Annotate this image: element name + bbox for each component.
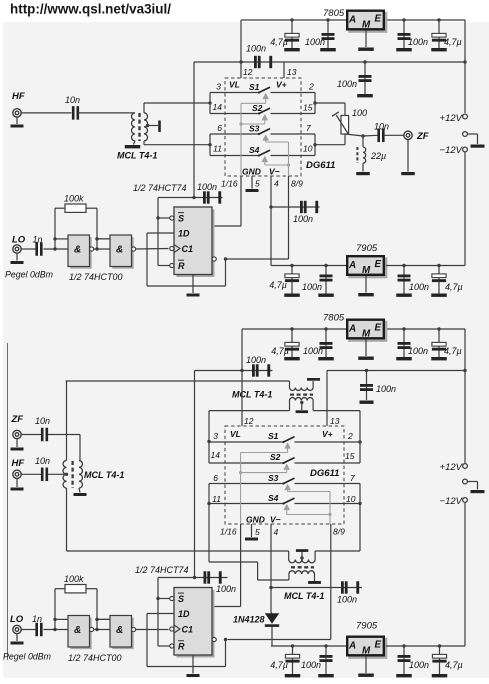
svg-text:10n: 10n	[35, 456, 50, 466]
label +12V b	[440, 462, 464, 473]
switch box S1/S2 frame	[208, 93, 316, 114]
label T3 MCL T4-1	[284, 591, 324, 601]
wire V- rail	[271, 265, 346, 267]
control net S3b	[284, 484, 330, 492]
svg-text:2: 2	[347, 431, 353, 441]
svg-text:10n: 10n	[65, 95, 80, 105]
wire T3 to box2b output	[315, 504, 360, 552]
control net S2	[241, 114, 268, 124]
wire V+ rail y62	[239, 60, 466, 63]
label pin 8/9b	[333, 527, 345, 537]
pin 1/16b stub to FF2 Q	[212, 524, 241, 607]
regulator U2 7805	[323, 8, 387, 33]
capacitor C29 4,7u (7905b E side)	[432, 644, 448, 677]
svg-text:13: 13	[330, 416, 340, 426]
flip-flop U4 74HCT74	[170, 207, 217, 277]
svg-text:14: 14	[211, 450, 221, 460]
regulator U6 7805	[323, 313, 387, 342]
svg-text:100n: 100n	[337, 79, 357, 89]
label C17 100n	[303, 346, 323, 356]
wire C9 to ZF	[385, 134, 404, 136]
svg-text:DG611: DG611	[306, 160, 335, 171]
label C22 100n	[337, 595, 357, 605]
capacitor C10 1n	[35, 242, 42, 256]
control net S2b	[241, 464, 290, 473]
svg-text:E: E	[375, 13, 382, 24]
capacitor C23 10n	[41, 428, 48, 442]
capacitor C6 100n (V+ decoupling)	[357, 60, 373, 97]
svg-text:100n: 100n	[302, 282, 322, 292]
svg-text:4,7µ: 4,7µ	[445, 660, 463, 670]
node mixer output	[361, 134, 364, 137]
label pin 11	[213, 144, 222, 154]
transformer T2 secondary	[290, 398, 314, 411]
svg-text:1/2 74HCT74: 1/2 74HCT74	[135, 565, 189, 575]
wire +5V rail top	[241, 19, 346, 21]
wire C23 to T4	[48, 435, 80, 461]
wire +5V rail bottom	[242, 328, 346, 330]
wire T3 center tap bar	[296, 549, 308, 560]
ground 7805b M pin	[358, 340, 374, 360]
svg-text:R: R	[178, 642, 185, 652]
wire R pin b	[158, 645, 170, 647]
ground HF connector	[11, 117, 24, 128]
capacitor C16 4,7u (7805b A side)	[284, 327, 300, 360]
capacitor C30 10n	[41, 468, 48, 482]
ground FF U9	[187, 655, 200, 677]
label pin 14	[213, 102, 223, 112]
label pin 10	[303, 144, 313, 154]
svg-text:1N4128: 1N4128	[233, 615, 265, 625]
svg-text:+12V: +12V	[440, 113, 464, 124]
wire T3 secondary left to box2b input	[209, 504, 289, 581]
label C21 100n	[376, 384, 396, 394]
resistor R1 100k	[55, 204, 97, 249]
NAND gate U3a	[53, 235, 93, 269]
NAND gate U8b	[95, 616, 135, 650]
capacitor C28 100n (7905b E side)	[396, 644, 412, 677]
label S2	[252, 103, 263, 113]
svg-text:10: 10	[303, 144, 313, 154]
capacitor C21 100n (V+b decoupling)	[360, 369, 374, 404]
label C23 10n	[35, 416, 50, 426]
svg-text:1D: 1D	[178, 229, 190, 239]
svg-text:A: A	[348, 640, 356, 651]
label C2 100n	[305, 37, 325, 47]
control net vertical S3S4	[287, 142, 290, 176]
svg-text:1/2 74HCT00: 1/2 74HCT00	[68, 653, 122, 663]
label pin 14b	[211, 450, 221, 460]
svg-text:100n: 100n	[246, 44, 266, 54]
svg-text:MCL T4-1: MCL T4-1	[284, 591, 324, 601]
wire R pin	[158, 265, 170, 267]
svg-text:M: M	[362, 645, 371, 656]
svg-text:6: 6	[217, 123, 222, 133]
label C18 100n	[408, 346, 428, 356]
label pin 15b	[345, 451, 355, 461]
svg-text:GND: GND	[246, 515, 265, 525]
svg-text:4,7µ: 4,7µ	[270, 660, 288, 670]
label C25 100n	[216, 584, 236, 594]
label C19 4,7u	[444, 346, 462, 356]
transformer T4 core	[71, 461, 73, 488]
switch box S1/S2b frame	[207, 440, 361, 463]
label Pegel 0dBm	[5, 270, 53, 280]
label C29 4,7u	[445, 660, 463, 670]
capacitor C8 100n (V- dangling)	[271, 201, 320, 213]
svg-text:11: 11	[212, 494, 221, 504]
svg-text:S4: S4	[249, 145, 260, 155]
svg-text:&: &	[74, 625, 81, 636]
label U3 1/2 74HCT00	[69, 272, 123, 282]
svg-text:100k: 100k	[64, 194, 84, 204]
label T1 MCL T4-1	[117, 151, 157, 161]
terminal +12V b	[463, 371, 468, 469]
svg-text:100k: 100k	[64, 574, 84, 584]
svg-text:4: 4	[274, 527, 279, 537]
wire S/R tie b	[156, 578, 194, 647]
label C6 100n	[337, 79, 357, 89]
wire C30 to T4 tap	[48, 473, 68, 476]
label C9 10n	[374, 122, 389, 132]
svg-text:S: S	[178, 594, 184, 604]
switch S4 blade	[258, 150, 270, 156]
svg-text:E: E	[375, 259, 382, 270]
label V-	[269, 167, 280, 177]
label C13 100n	[302, 282, 322, 292]
svg-text:7805: 7805	[323, 8, 345, 19]
svg-text:100n: 100n	[408, 346, 428, 356]
svg-text:http://www.qsl.net/va3iul/: http://www.qsl.net/va3iul/	[10, 1, 171, 16]
wire C7 to T1	[79, 112, 135, 114]
label V+	[276, 80, 287, 90]
label VL	[229, 80, 240, 90]
transformer T1 secondary	[144, 113, 148, 141]
label S4	[249, 145, 260, 155]
ground pin5	[246, 189, 259, 192]
wire V-b rail	[271, 645, 346, 647]
capacitor C9 10n	[377, 129, 384, 143]
transformer T1 primary	[132, 113, 136, 141]
label U4 1/2 74HCT74	[133, 183, 187, 193]
node +5Vb corner	[241, 329, 243, 371]
pin 8/9b stub to FF2 Qbar	[228, 524, 331, 640]
label C1 4,7u	[270, 37, 288, 47]
wire gate2b upper input	[95, 618, 110, 621]
svg-text:M: M	[362, 265, 371, 276]
svg-text:Pegel 0dBm: Pegel 0dBm	[3, 652, 51, 662]
transformer T2 primary	[290, 381, 314, 390]
label C16 4,7u	[271, 346, 289, 356]
wire V+b rail	[327, 369, 467, 372]
svg-text:100n: 100n	[408, 37, 428, 47]
svg-text:S3: S3	[268, 473, 279, 483]
svg-text:4,7µ: 4,7µ	[269, 280, 287, 290]
switch box S3/S4b frame	[207, 484, 361, 506]
svg-text:1/2 74HCT00: 1/2 74HCT00	[69, 272, 123, 282]
capacitor C18 100n (7805b E side)	[396, 327, 412, 360]
wire 1D feedback	[147, 233, 226, 286]
wire gate2 upper input	[95, 237, 110, 240]
svg-text:−12V: −12V	[440, 496, 464, 507]
svg-text:5: 5	[255, 179, 260, 189]
label S1b	[268, 431, 279, 441]
wire pot bottom to node	[345, 134, 363, 136]
capacitor C27 100n (7905b A side)	[318, 644, 334, 677]
svg-text:13: 13	[287, 67, 297, 77]
svg-text:7: 7	[306, 123, 311, 133]
terminal +12V	[463, 62, 468, 119]
wire T2 secondary right to pin2b	[313, 411, 360, 442]
capacitor C15 4,7u (7905 E side)	[431, 264, 447, 297]
wire box2 out to pot bottom	[315, 134, 345, 145]
label pin 1/16b	[220, 527, 237, 537]
svg-text:S1: S1	[249, 82, 260, 92]
svg-text:MCL T4-1: MCL T4-1	[232, 390, 272, 400]
label U9 1/2 74HCT74	[135, 565, 189, 575]
svg-text:14: 14	[213, 102, 223, 112]
flip-flop U9 74HCT74	[170, 588, 217, 658]
terminal GND b	[463, 479, 485, 493]
label R1 100k	[64, 194, 84, 204]
label P1 100	[352, 108, 367, 118]
label C30 10n	[35, 456, 50, 466]
label C24 1n	[32, 614, 42, 624]
switch S3b blade	[282, 478, 294, 485]
wire VL rail to FF supply	[194, 62, 241, 198]
control net vertical S3S4b	[328, 492, 331, 525]
svg-text:S: S	[178, 214, 184, 224]
svg-text:S2: S2	[252, 103, 263, 113]
label pin 4	[274, 179, 279, 189]
label pin 3	[216, 82, 221, 92]
svg-text:C1: C1	[182, 244, 194, 254]
svg-text:7905: 7905	[356, 621, 378, 632]
wire LO to C10	[21, 248, 35, 250]
svg-text:100n: 100n	[376, 384, 396, 394]
label pin 1/16	[221, 179, 238, 189]
svg-text:&: &	[116, 244, 123, 255]
svg-text:100n: 100n	[293, 214, 313, 224]
label pin 2	[308, 82, 314, 92]
label U7 DG611	[310, 468, 339, 479]
regulator U5 7905	[347, 243, 387, 278]
label pin 4b	[274, 527, 279, 537]
pin 13 V+ stub	[283, 62, 285, 78]
svg-text:A: A	[348, 14, 356, 25]
svg-text:100n: 100n	[246, 355, 266, 365]
svg-text:8/9: 8/9	[333, 527, 345, 537]
wire S pin	[158, 217, 170, 219]
svg-text:10n: 10n	[35, 416, 50, 426]
label Pegel 0dBm b	[3, 652, 51, 662]
label C12 4,7u	[269, 280, 287, 290]
pin 13b stub	[326, 371, 328, 427]
wire T2 center tap ground	[296, 401, 308, 413]
label C15 4,7u	[445, 282, 463, 292]
terminal -12V b	[440, 496, 468, 646]
label pin 12b	[244, 416, 254, 426]
label C28 100n	[409, 660, 429, 670]
wire 7805 output to +12V corner	[385, 20, 465, 62]
label pin 7	[306, 123, 311, 133]
label S3b	[268, 473, 279, 483]
switch S2b blade	[282, 458, 294, 465]
svg-text:12: 12	[243, 67, 253, 77]
svg-text:100n: 100n	[216, 584, 236, 594]
ground T1 primary	[125, 141, 141, 149]
svg-text:E: E	[375, 639, 382, 650]
svg-text:10: 10	[346, 494, 356, 504]
svg-text:V−: V−	[269, 167, 280, 177]
label C7 10n	[65, 95, 80, 105]
svg-text:V−: V−	[270, 515, 281, 525]
svg-text:MCL T4-1: MCL T4-1	[84, 470, 124, 480]
svg-text:ZF: ZF	[11, 414, 24, 425]
capacitor C3 100n (7805 E side)	[396, 18, 412, 51]
ground L1	[356, 163, 370, 175]
IC U7 DG611b package outline	[225, 426, 344, 524]
transformer T3 primary	[289, 551, 315, 563]
node FF Qbar	[224, 257, 227, 260]
capacitor C2 100n (7805 A side)	[320, 18, 336, 51]
label VLb	[230, 429, 241, 439]
capacitor C25 100n (FF2 bypass)	[195, 571, 228, 583]
capacitor C4 4,7u (7805 E side)	[431, 18, 447, 51]
label V+b	[322, 429, 333, 439]
ground ZF connector	[401, 139, 415, 175]
svg-text:1n: 1n	[32, 614, 42, 624]
svg-text:1/16: 1/16	[221, 179, 238, 189]
pin 12b stub	[241, 371, 243, 427]
ground FF U4	[187, 275, 200, 297]
label C11 100n	[197, 182, 217, 192]
IC U1 DG611 package outline	[225, 78, 301, 176]
ground LO connector	[11, 253, 24, 264]
ground HFb connector	[11, 478, 24, 490]
wire HF to C7	[21, 112, 71, 114]
capacitor C19 4,7u (7805b E side)	[431, 327, 447, 360]
transformer T2 core	[290, 393, 313, 395]
label C20 100n	[246, 355, 266, 365]
capacitor C24 1n	[35, 623, 42, 637]
regulator U10 7905	[347, 621, 387, 659]
svg-text:6: 6	[213, 473, 218, 483]
transformer T4 right winding	[79, 461, 82, 489]
svg-text:10n: 10n	[374, 122, 389, 132]
label U1 DG611	[306, 160, 335, 171]
control net S4	[262, 156, 289, 165]
svg-text:E: E	[375, 322, 382, 333]
svg-text:100n: 100n	[409, 282, 429, 292]
switch S3 blade	[258, 129, 270, 135]
svg-text:GND: GND	[242, 167, 261, 177]
control net S3	[262, 134, 288, 142]
label +12V	[440, 113, 464, 124]
switch box S3/S4 frame	[208, 134, 316, 156]
wire 7905b E to -12V	[386, 645, 465, 647]
label C26 4,7u	[270, 660, 288, 670]
label T2 MCL T4-1	[232, 390, 272, 400]
svg-text:Pegel 0dBm: Pegel 0dBm	[5, 270, 53, 280]
svg-text:HF: HF	[12, 458, 25, 469]
label GNDb	[246, 515, 265, 525]
wire T1 secondary bottom to S-box2	[144, 141, 210, 145]
svg-text:HF: HF	[12, 91, 25, 102]
node VLb	[240, 369, 243, 372]
wire S pin b	[158, 598, 170, 600]
wire LOb to C24	[21, 629, 35, 631]
svg-text:15: 15	[303, 103, 313, 113]
label C14 100n	[409, 282, 429, 292]
transformer T1 core	[138, 113, 140, 141]
transformer T3 secondary	[289, 571, 315, 581]
diode D1 1N4128	[265, 613, 279, 647]
wire gate2b to FF2 clock	[136, 629, 169, 631]
svg-text:M: M	[362, 19, 371, 30]
ground LOb connector	[11, 634, 24, 645]
svg-text:A: A	[348, 260, 356, 271]
svg-text:S3: S3	[249, 124, 260, 134]
connector LO	[12, 235, 26, 254]
svg-text:S1: S1	[268, 431, 279, 441]
label U8 1/2 74HCT00	[68, 653, 122, 663]
potentiometer P1 wiper	[332, 112, 349, 135]
svg-text:4,7µ: 4,7µ	[445, 282, 463, 292]
svg-text:5: 5	[255, 527, 260, 537]
svg-text:100n: 100n	[305, 37, 325, 47]
capacitor C20 100n between VLb and V+b	[242, 364, 273, 376]
connector HFb	[12, 458, 25, 478]
capacitor C14 100n (7905 E side)	[396, 264, 412, 297]
inductor L1 22u	[357, 136, 365, 163]
wire C24 to gate1b	[44, 628, 69, 631]
pin 5 GND stub	[251, 176, 253, 189]
control net vertical S1S2	[239, 103, 242, 176]
control net S4b	[283, 504, 330, 515]
capacitor C1 4,7u (7805 A side)	[284, 18, 300, 51]
wire gate2 to FF clock	[136, 248, 169, 251]
pin 4 V- stub	[269, 176, 272, 266]
svg-text:1D: 1D	[178, 609, 190, 619]
svg-text:3: 3	[216, 82, 221, 92]
wire gate1b to gate2b	[94, 628, 110, 631]
label pin 13b	[330, 416, 340, 426]
ground 7905 M pin	[358, 276, 374, 296]
capacitor C17 100n (7805b A side)	[318, 327, 334, 360]
svg-text:V+: V+	[322, 429, 333, 439]
label pin 6	[217, 123, 222, 133]
NAND gate U3b	[95, 235, 135, 269]
label pin 10b	[346, 494, 356, 504]
svg-text:S2: S2	[270, 452, 281, 462]
switch S4b blade	[282, 498, 294, 505]
connector HF	[12, 91, 25, 117]
svg-text:100: 100	[352, 108, 367, 118]
svg-text:V+: V+	[276, 80, 287, 90]
transformer T3 core	[291, 566, 314, 568]
svg-text:&: &	[74, 244, 81, 255]
wire ZFb to C23	[21, 434, 41, 436]
pin 1/16 stub to FF Q	[212, 176, 241, 226]
label V-b	[270, 515, 281, 525]
label S3	[249, 124, 260, 134]
label pin 6b	[213, 473, 218, 483]
left margin scan line	[7, 343, 9, 660]
svg-text:12: 12	[244, 416, 254, 426]
capacitor C12 4,7u (7905 A side)	[284, 264, 300, 297]
svg-text:100n: 100n	[409, 660, 429, 670]
